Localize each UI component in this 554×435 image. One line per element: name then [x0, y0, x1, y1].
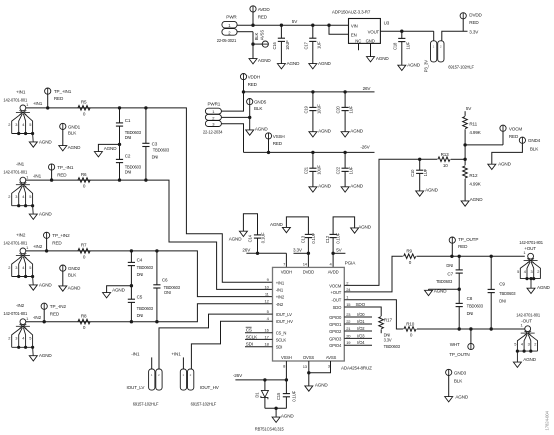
svg-text:AGND: AGND [537, 285, 551, 290]
svg-text:EN: EN [351, 32, 357, 37]
svg-text:+IN1: +IN1 [276, 280, 285, 285]
svg-text:AGND: AGND [270, 222, 284, 227]
svg-text:+IN2: +IN2 [33, 244, 43, 249]
op-amp U1 ADA4254-8RUZ (PGIA) [273, 261, 373, 371]
svg-text:2: 2 [8, 194, 10, 199]
ground AGND (GND3) [445, 394, 469, 402]
wire -OUT pin 1 to R10 [344, 300, 403, 329]
svg-text:-IN1: -IN1 [16, 162, 25, 167]
svg-text:+IN1: +IN1 [16, 89, 26, 94]
svg-text:17824-004: 17824-004 [545, 411, 550, 431]
node C1/C2 midpoint to AGND [98, 143, 121, 152]
svg-text:+IN1: +IN1 [171, 351, 181, 356]
svg-text:3.3V: 3.3V [384, 338, 392, 343]
capacitor C7 TBD0603 DNI [436, 256, 463, 289]
svg-text:TP_OUTN: TP_OUTN [449, 352, 469, 357]
capacitor C8 TBD0603 DNI [456, 289, 484, 329]
capacitor C20 1UF [336, 92, 354, 132]
svg-text:RED: RED [469, 20, 479, 25]
wire -IN2 to IC pin 12 [26, 304, 273, 324]
svg-text:142-0701-801: 142-0701-801 [3, 97, 28, 102]
ground AGND (C22) [341, 184, 364, 193]
ground AGND (C1/C2) [94, 146, 117, 157]
svg-text:GPIO2: GPIO2 [329, 329, 342, 334]
svg-text:5: 5 [29, 194, 31, 199]
wire 26V rail [242, 90, 375, 93]
svg-text:C21: C21 [304, 166, 309, 174]
svg-text:142-0701-801: 142-0701-801 [3, 170, 28, 175]
svg-text:+IN2: +IN2 [16, 232, 26, 237]
resistor R9 0 [404, 249, 416, 265]
svg-text:TP_+IN1: TP_+IN1 [54, 89, 72, 94]
wire 26V to VDDH pin [246, 252, 286, 268]
svg-text:C8: C8 [467, 296, 473, 301]
svg-text:2: 2 [537, 269, 539, 274]
ground AGND (DVSS) [305, 382, 329, 391]
svg-text:C5: C5 [137, 294, 143, 299]
ground AGND (C12) [351, 224, 372, 233]
svg-text:C14: C14 [248, 234, 253, 242]
test point TP_OUTN [449, 329, 474, 357]
regulator U3 ADP150AUZ-3.3-R7 [332, 10, 390, 44]
svg-text:DNI: DNI [125, 135, 132, 140]
wire 5V to AVDD pin [331, 252, 345, 268]
svg-text:WHT: WHT [450, 342, 460, 347]
wire +IN2 to IC pin 11 [26, 249, 273, 296]
svg-text:I/O3: I/O3 [357, 333, 365, 338]
svg-text:AGND: AGND [39, 282, 53, 287]
svg-text:AGND: AGND [455, 394, 469, 399]
svg-text:AGND: AGND [376, 56, 390, 61]
svg-text:DNI: DNI [125, 170, 132, 175]
svg-text:22-12-2034: 22-12-2034 [203, 129, 223, 134]
ground AGND (C20) [341, 129, 364, 138]
svg-text:VOCM: VOCM [329, 283, 342, 288]
svg-text:AGND: AGND [425, 187, 439, 192]
svg-text:-IN2: -IN2 [16, 303, 25, 308]
svg-text:0.1UF: 0.1UF [336, 232, 341, 243]
svg-text:BLK: BLK [254, 106, 263, 111]
svg-text:3: 3 [15, 336, 17, 341]
svg-text:C7: C7 [447, 271, 453, 276]
svg-text:C17: C17 [303, 41, 308, 49]
connector -IN1 (142-0701-801) [3, 162, 52, 220]
connector PWR1 (22-12-2034) [203, 101, 223, 134]
net label -IN1 [33, 173, 42, 178]
svg-text:AGND: AGND [470, 197, 484, 202]
connector +OUT (142-0701-801) [517, 240, 550, 294]
svg-text:C9: C9 [499, 282, 505, 287]
wire PWR1 pin1 to 26V [221, 92, 243, 111]
svg-text:TBD0603: TBD0603 [153, 148, 170, 153]
wire VSSH pin 8 to -26V [285, 361, 288, 394]
ground AGND (C10) [416, 187, 439, 196]
ground AGND (C4/C5) [103, 287, 126, 298]
resistor R12 4.99K [463, 159, 482, 201]
svg-text:AGND: AGND [39, 139, 53, 144]
svg-text:DVDD: DVDD [303, 270, 314, 275]
wire -IN1 to IC pin 10 [26, 178, 273, 289]
svg-text:69157-102HLF: 69157-102HLF [448, 65, 474, 70]
jumper IOUT_LV (69157-102HLF) [127, 351, 163, 406]
ground AGND (R12) [461, 197, 483, 206]
capacitor C18 1UF [392, 31, 410, 65]
ground AGND (C14) [229, 231, 248, 241]
svg-text:AGND: AGND [39, 353, 53, 358]
svg-text:GND3: GND3 [454, 370, 467, 375]
svg-text:IOUT_LV: IOUT_LV [127, 385, 146, 390]
wire PWR1 pin3 to -26V [221, 124, 243, 153]
svg-text:I/O2: I/O2 [357, 326, 365, 331]
svg-text:AGND: AGND [498, 161, 512, 166]
test point VSSH [265, 133, 284, 153]
svg-text:RB751CS40,315: RB751CS40,315 [255, 426, 285, 431]
svg-text:C20: C20 [336, 105, 341, 113]
net label 3.3V (DVDD) [293, 247, 303, 252]
svg-text:0.1UF: 0.1UF [311, 232, 316, 243]
wire 5V rail [237, 24, 348, 27]
svg-text:C2: C2 [125, 154, 131, 159]
ground AGND (C21) [309, 184, 332, 193]
net label 3.3V [469, 30, 479, 35]
svg-text:DNI: DNI [467, 311, 474, 316]
svg-text:GPIO0: GPIO0 [329, 315, 342, 320]
svg-text:P3_3V: P3_3V [424, 60, 429, 73]
svg-text:AGND: AGND [350, 184, 364, 189]
test point TP_-IN1 [49, 164, 74, 180]
svg-text:69157-102HLF: 69157-102HLF [133, 402, 159, 407]
ground AGND (C13) [270, 222, 290, 233]
test point TP_+IN1 [45, 88, 72, 108]
net label 26V [363, 86, 372, 91]
svg-text:IOUT_LV: IOUT_LV [276, 312, 292, 317]
net label 5V (AVDD) [336, 247, 342, 252]
ground AGND (C7/C8) [425, 289, 448, 296]
svg-text:10: 10 [443, 163, 448, 168]
svg-text:142-0701-801: 142-0701-801 [519, 240, 544, 245]
svg-text:10UF: 10UF [285, 40, 290, 50]
figure number 17824-004 [545, 411, 550, 431]
svg-text:VIN: VIN [351, 23, 358, 28]
wire PWR1 pin2 [221, 116, 251, 119]
svg-text:5: 5 [514, 342, 516, 347]
jumper P3_3V (69157-102HLF) [424, 31, 475, 72]
svg-text:RED: RED [509, 134, 519, 139]
svg-text:AGND: AGND [358, 224, 372, 229]
svg-text:R9: R9 [406, 249, 412, 254]
svg-text:2: 2 [534, 342, 536, 347]
svg-text:C4: C4 [137, 258, 143, 263]
svg-text:AGND: AGND [287, 61, 301, 66]
test point TP_-IN2 [41, 303, 66, 322]
svg-text:5: 5 [517, 269, 519, 274]
svg-text:AGND: AGND [258, 58, 272, 63]
svg-text:2: 2 [8, 265, 10, 270]
node C7/C8 to AGND [429, 288, 461, 291]
resistor R13 10 [420, 152, 465, 168]
svg-text:-OUT: -OUT [332, 298, 342, 303]
svg-text:GPIO3: GPIO3 [329, 336, 342, 341]
svg-text:22-05-3021: 22-05-3021 [217, 38, 237, 43]
svg-text:1UF: 1UF [423, 168, 428, 176]
pin labels right side [329, 280, 351, 348]
svg-text:ADP150AUZ-3.3-R7: ADP150AUZ-3.3-R7 [332, 10, 371, 15]
ground AGND (C19) [309, 129, 332, 138]
svg-text:142-0701-801: 142-0701-801 [3, 240, 28, 245]
net label -26V (bottom) [233, 373, 243, 378]
svg-text:-IN1: -IN1 [33, 173, 42, 178]
wire 3.3V rail [380, 30, 433, 33]
capacitor C22 1UF [336, 152, 354, 186]
svg-text:AGND: AGND [350, 129, 364, 134]
svg-text:PGIA: PGIA [345, 261, 357, 266]
svg-text:AVDD: AVDD [328, 270, 339, 275]
svg-text:3.3V: 3.3V [293, 247, 303, 252]
pin NC stub [358, 43, 360, 50]
svg-text:RED: RED [248, 82, 258, 87]
wire -26V rail (bottom) [235, 378, 286, 381]
svg-text:+IN2: +IN2 [276, 295, 285, 300]
svg-text:+IN1: +IN1 [33, 101, 43, 106]
svg-text:GND1: GND1 [68, 124, 81, 129]
svg-text:C22: C22 [336, 166, 341, 174]
capacitor C4 TBD0603 DNI [128, 251, 154, 299]
node C4/C5 midpoint to AGND [107, 284, 133, 293]
svg-text:TBD0603: TBD0603 [436, 279, 453, 284]
test point VOCM [500, 125, 523, 145]
node D1/C15 to AGND [265, 407, 287, 418]
net SDI (pin 18) [245, 342, 273, 347]
svg-text:PWR: PWR [226, 15, 237, 20]
svg-text:R10: R10 [406, 321, 415, 326]
svg-text:R12: R12 [469, 173, 478, 178]
svg-text:TBD0603: TBD0603 [137, 306, 154, 311]
resistor R17 DNI 3.3V TBD0603 [379, 317, 401, 349]
svg-text:-26V: -26V [360, 144, 370, 149]
ground AGND (C17) [309, 61, 332, 69]
net label -26V [360, 144, 370, 149]
svg-text:0.1UF: 0.1UF [291, 390, 296, 401]
svg-text:RED: RED [57, 172, 67, 177]
ground AGND (U3) [367, 56, 390, 62]
ground AGND (D1/C15) [255, 414, 295, 432]
svg-text:69157-102HLF: 69157-102HLF [191, 402, 217, 407]
svg-text:VSSH: VSSH [273, 134, 285, 139]
svg-text:C13: C13 [301, 235, 306, 243]
wire to TP VOCM [465, 144, 503, 146]
svg-text:10UF: 10UF [317, 104, 322, 114]
ground AGND (GND4) [488, 161, 512, 169]
svg-text:AGND: AGND [407, 63, 421, 68]
svg-text:142-0701-801: 142-0701-801 [3, 311, 28, 316]
capacitor C2 TBD0603 DNI [116, 154, 142, 181]
wire 3.3V to DVDD pin [294, 252, 311, 268]
svg-text:SDI: SDI [276, 345, 283, 350]
resistor R8 0 [78, 314, 90, 331]
diode D1 RB751CS40,315 [254, 380, 268, 408]
capacitor C5 TBD0603 DNI [128, 294, 154, 321]
resistor R10 0 [404, 321, 416, 337]
svg-text:AGND: AGND [318, 129, 332, 134]
svg-text:GND4: GND4 [528, 138, 541, 143]
net label +IN2 [33, 244, 43, 249]
net label 5V (R11) [466, 106, 472, 111]
connector +IN2 (142-0701-801) [3, 232, 52, 290]
svg-text:DNI: DNI [446, 263, 453, 268]
test point AVDD [250, 6, 270, 25]
pin labels top [281, 261, 339, 274]
svg-text:C18: C18 [392, 42, 397, 50]
svg-text:+OUT: +OUT [331, 290, 342, 295]
capacitor C17 1UF [303, 25, 321, 63]
svg-text:GND5: GND5 [254, 100, 267, 105]
capacitor C13 0.1UF [286, 217, 316, 253]
svg-text:BLK: BLK [254, 32, 259, 40]
ground AGND (GND5) [246, 126, 269, 135]
svg-text:3: 3 [531, 269, 533, 274]
svg-text:GND: GND [366, 38, 375, 43]
svg-text:2: 2 [8, 122, 10, 127]
svg-text:R13: R13 [441, 152, 450, 157]
wire IOUT_HV pin 4 to jumper [191, 321, 272, 369]
svg-text:1UF: 1UF [349, 166, 354, 174]
test point GND3 [446, 369, 467, 396]
test point DVDD [460, 12, 482, 31]
svg-text:+OUT: +OUT [524, 246, 536, 251]
svg-text:R8: R8 [81, 314, 87, 319]
svg-text:IOUT_HV: IOUT_HV [276, 319, 293, 324]
wire DVSS pin 13 to AGND [307, 361, 310, 386]
pin labels bottom [281, 355, 336, 369]
net SDO (pin 15) [344, 302, 381, 316]
svg-text:TBD0603: TBD0603 [384, 344, 401, 349]
svg-text:4.99K: 4.99K [469, 130, 481, 135]
jumper IOUT_HV (69157-102HLF) [171, 351, 219, 406]
node R11/R12 (VOCM set) [463, 143, 466, 161]
capacitor C14 0.1UF [243, 214, 265, 254]
svg-text:GPIO1: GPIO1 [329, 322, 342, 327]
test point GND4 [519, 137, 540, 151]
svg-text:RED: RED [273, 141, 283, 146]
svg-text:TBD0603: TBD0603 [499, 291, 516, 296]
svg-text:AGND: AGND [39, 212, 53, 217]
svg-text:5: 5 [29, 336, 31, 341]
svg-text:TP_-IN1: TP_-IN1 [57, 165, 74, 170]
svg-text:DNI: DNI [152, 154, 159, 159]
resistor R7 0 [78, 243, 90, 260]
connector PWR (22-05-3021) [217, 15, 238, 43]
svg-text:4.99K: 4.99K [469, 182, 481, 187]
svg-text:RED: RED [52, 240, 62, 245]
svg-text:C12: C12 [325, 235, 330, 243]
svg-text:C19: C19 [304, 105, 309, 113]
wire +IN1 to IC pin 9 [26, 106, 273, 282]
svg-text:VOUT: VOUT [368, 29, 380, 34]
svg-text:I/O1: I/O1 [357, 319, 365, 324]
ground AGND (PWR pin2) [249, 58, 271, 64]
net CS (wire to CS_N pin 16) [245, 327, 273, 333]
ground AGND (GND1) [59, 145, 81, 151]
svg-text:142-0701-801: 142-0701-801 [516, 312, 541, 317]
svg-text:AGND: AGND [255, 126, 269, 131]
svg-text:3: 3 [15, 122, 17, 127]
svg-text:SDO: SDO [333, 305, 343, 310]
svg-text:RED: RED [50, 312, 60, 317]
svg-text:PWR1: PWR1 [208, 101, 221, 106]
wire PWR pin2 to AGND [237, 32, 255, 59]
svg-text:R7: R7 [81, 243, 87, 248]
wires GPIO0-GPIO4 with net labels I/O0-I/O4 [344, 312, 372, 345]
svg-text:BLK: BLK [454, 379, 463, 384]
svg-text:C16: C16 [272, 41, 277, 49]
svg-text:VDDH: VDDH [248, 74, 260, 79]
wire VOCM pin 2 riser [344, 159, 419, 285]
wire +OUT pin 24 to R9 [344, 256, 403, 292]
test point TP_+IN2 [44, 232, 71, 251]
svg-text:TP_-IN2: TP_-IN2 [50, 304, 67, 309]
capacitor C1 TBD0603 DNI [116, 108, 142, 159]
svg-text:AGND: AGND [68, 285, 82, 290]
capacitor C21 10UF [304, 152, 322, 186]
svg-text:AGND: AGND [68, 145, 82, 150]
net label -IN2 [33, 315, 42, 320]
net SCLK (pin 17) [245, 334, 273, 339]
capacitor C16 10UF [272, 25, 290, 63]
svg-text:TBD0603: TBD0603 [137, 265, 154, 270]
net label 5V [292, 19, 298, 24]
svg-text:AGND: AGND [315, 382, 329, 387]
svg-text:TP_OUTP: TP_OUTP [458, 237, 478, 242]
svg-text:VSSH: VSSH [281, 355, 292, 360]
svg-text:I/O4: I/O4 [357, 340, 365, 345]
svg-text:DVDD: DVDD [469, 12, 482, 17]
pin labels left side [265, 277, 294, 350]
wire +OUT rail [417, 255, 525, 258]
svg-text:DNI: DNI [137, 272, 144, 277]
svg-text:SCLK: SCLK [246, 334, 258, 339]
ground AGND (GND2) [59, 285, 81, 291]
svg-text:3: 3 [15, 265, 17, 270]
svg-text:AVSS: AVSS [259, 30, 264, 41]
svg-text:5: 5 [29, 122, 31, 127]
capacitor C19 10UF [304, 92, 322, 132]
connector -OUT (142-0701-801) [513, 312, 540, 367]
svg-text:0.1UF: 0.1UF [261, 232, 266, 243]
svg-text:26V: 26V [242, 248, 251, 253]
svg-text:RED: RED [458, 244, 468, 249]
capacitor C10 1UF [410, 158, 428, 191]
svg-text:SDI: SDI [246, 342, 253, 347]
test point GND5 [247, 99, 267, 130]
svg-text:AGND: AGND [523, 357, 537, 362]
wire EN tie [329, 25, 349, 34]
net label +IN1 [33, 101, 43, 106]
svg-text:1UF: 1UF [405, 41, 410, 49]
svg-text:TP_+IN2: TP_+IN2 [52, 233, 70, 238]
svg-text:RED: RED [54, 96, 64, 101]
svg-text:2: 2 [8, 336, 10, 341]
net label 26V (VDDH) [242, 248, 251, 253]
svg-text:GPIO4: GPIO4 [329, 343, 342, 348]
svg-text:C1: C1 [125, 118, 131, 123]
wire IOUT_LV pin 5 to jumper [159, 314, 273, 369]
svg-text:DVSS: DVSS [303, 355, 314, 360]
svg-text:GND2: GND2 [68, 266, 81, 271]
resistor R6 0 [78, 172, 90, 189]
resistor R11 4.99K [463, 111, 482, 145]
svg-text:TBD0603: TBD0603 [467, 304, 484, 309]
svg-text:BLK: BLK [530, 146, 539, 151]
